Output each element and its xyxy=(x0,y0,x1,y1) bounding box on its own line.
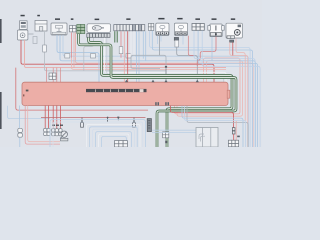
triple fuse cluster labels xyxy=(52,125,55,126)
fuse component left bottom xyxy=(18,128,23,147)
key fob icon xyxy=(92,26,101,31)
label a (box B) xyxy=(37,15,40,16)
pin component x234.7 xyxy=(232,121,236,140)
pump icon bottom-left cluster xyxy=(60,131,68,141)
wire blue C1 right xyxy=(143,31,145,61)
fuse x46.5 xyxy=(44,128,47,131)
wire red short from HI xyxy=(232,42,234,55)
BSI unit box (salmon) xyxy=(22,80,230,106)
switch CTP box xyxy=(210,24,222,37)
wire blue y56.2 with inline connectors xyxy=(63,35,249,147)
battery B box xyxy=(35,21,47,32)
wire white pair above green ring xyxy=(105,38,227,82)
blue stubs under U1/U2 xyxy=(158,36,184,45)
grid connector between green verticals xyxy=(163,132,169,138)
wire blue pair into bottom-right box xyxy=(152,130,196,132)
small dark block below HI xyxy=(230,40,234,42)
wire blue small grid corner xyxy=(150,31,251,147)
remote key unit CV box xyxy=(87,24,111,33)
wire red horizontal y117.5 with pins xyxy=(41,117,146,119)
wire pink C1 with inline connector xyxy=(120,31,122,58)
connector grid above BSI left xyxy=(49,73,56,79)
label C1 xyxy=(126,18,130,20)
grid connector bottom-right xyxy=(228,140,238,147)
wire salmon C1 xyxy=(123,31,125,82)
label above box U1 xyxy=(158,18,164,20)
wire grey wrap below BSI xyxy=(187,106,248,147)
siren unit HI box xyxy=(226,23,242,38)
left edge mark lower xyxy=(0,92,2,129)
wire red C1 xyxy=(127,31,129,82)
wire pink from grid C xyxy=(71,33,73,58)
wire salmon y69.4 xyxy=(72,58,227,70)
small grid connector right of C1 xyxy=(148,23,153,30)
connector grid C xyxy=(70,26,76,32)
wire blue horizontal band y60.8 xyxy=(60,35,256,147)
wire salmon long y63.2 xyxy=(76,33,254,148)
BSI pin triangle x193.5 xyxy=(196,80,199,83)
connector strip C1 xyxy=(114,25,145,31)
wire blue corner far left xyxy=(8,106,51,119)
wire grey horizontal band y70.8 xyxy=(45,31,167,71)
label BC xyxy=(55,18,60,20)
module box U2 xyxy=(174,23,187,35)
wire red from CTP corner xyxy=(197,37,216,66)
grey pin wire into BSI x166 xyxy=(165,69,167,80)
red wire from U2 right xyxy=(188,36,194,56)
mark below greens grid xyxy=(165,141,167,143)
module box U1 xyxy=(156,23,169,35)
grid connector bottom-centre xyxy=(115,141,128,147)
dark wire from U2 down xyxy=(175,40,179,47)
label above box U2 xyxy=(177,18,182,20)
stub wire from BB to small connector xyxy=(28,33,34,35)
wires red into BSI top xyxy=(47,68,61,83)
CAN green wire B (outer ring) xyxy=(79,34,237,147)
wire grey corner CV left xyxy=(84,38,94,71)
BSI label strip xyxy=(86,89,147,92)
module BC box xyxy=(51,23,67,35)
inline connector on wire x44.5 xyxy=(43,45,47,52)
nested loop group bottom-centre xyxy=(50,120,146,147)
tiny label right of pin xyxy=(237,136,240,138)
label BB xyxy=(21,15,25,16)
CAN green wire A (inner ring) xyxy=(89,38,233,148)
pin symbol x134 xyxy=(133,123,136,128)
connector grid CD xyxy=(192,24,204,31)
wires salmon from HI xyxy=(230,42,248,147)
wire red to pin x233.5 xyxy=(171,106,234,128)
junction dot x107.6 xyxy=(107,118,109,123)
BSI pin triangle x153 xyxy=(151,80,154,83)
wire salmon horizontal band y67.6 xyxy=(25,40,227,68)
BSI small mark m xyxy=(26,90,29,92)
label CTP xyxy=(212,18,217,20)
label C (grid) xyxy=(71,18,74,20)
wire blue from CTP xyxy=(211,37,213,61)
wire salmon from grid C xyxy=(73,33,75,68)
wire white C1 stubs xyxy=(131,31,134,57)
junction tick x118 xyxy=(117,118,119,121)
BSI bottom pins for CAN xyxy=(155,102,157,105)
label CV xyxy=(95,19,100,21)
wire blue pair exiting BSI bottom xyxy=(182,106,243,147)
wires blue from CD grid xyxy=(194,31,255,148)
wire blue pair C1 to BSI top xyxy=(137,31,139,82)
ignition switch BB lower part xyxy=(18,30,28,40)
BSI right edge notch xyxy=(227,90,230,98)
BSI pin triangle x166 xyxy=(164,80,167,83)
small connector outline right of BB xyxy=(33,37,37,44)
wire red horizontal y110 xyxy=(16,68,148,111)
wire blue corner from BC xyxy=(57,35,99,82)
wire salmon horizontal band y57.7 xyxy=(175,58,241,114)
dark relay component x146-149 xyxy=(147,119,151,132)
small dark block below U2 xyxy=(174,37,178,40)
BSI pin triangle x126.5 xyxy=(125,80,128,83)
CV connector strip xyxy=(87,34,110,38)
pin symbol x82 xyxy=(81,123,84,128)
wire green C1 feeder xyxy=(115,31,117,42)
outlined box bottom-right area xyxy=(196,128,218,148)
wire salmon wrap B xyxy=(177,61,243,117)
label HI xyxy=(231,18,235,20)
triple fuse cluster xyxy=(52,129,63,136)
wire blue below BSI left xyxy=(19,106,21,129)
ignition switch BB upper part xyxy=(20,21,28,30)
wire salmon pair bottom-left corner xyxy=(28,106,60,142)
wires red to triple fuses xyxy=(53,106,60,129)
wire red to fuse x46.5 xyxy=(45,106,48,129)
left edge mark upper xyxy=(0,19,2,43)
label CD xyxy=(195,18,200,20)
wire red horizontal band y64 xyxy=(21,40,214,82)
grey wire from U1 down xyxy=(159,36,161,56)
green connector block xyxy=(77,25,85,34)
grey loop under U1 xyxy=(131,55,166,70)
